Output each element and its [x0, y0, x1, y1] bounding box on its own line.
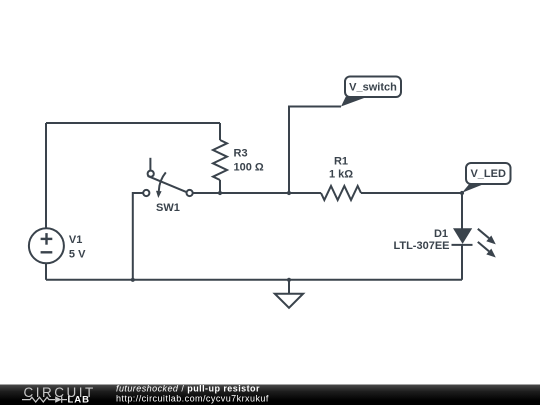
- svg-text:D1: D1: [434, 228, 448, 240]
- svg-text:V1: V1: [69, 234, 82, 246]
- svg-text:V_switch: V_switch: [349, 82, 397, 94]
- svg-text:1 kΩ: 1 kΩ: [329, 169, 353, 181]
- svg-text:futureshocked / pull-up resist: futureshocked / pull-up resistor: [116, 384, 260, 394]
- svg-text:V_LED: V_LED: [470, 168, 506, 180]
- svg-text:R1: R1: [334, 156, 348, 168]
- svg-text:http://circuitlab.com/cycvu7kr: http://circuitlab.com/cycvu7krxukuf: [116, 394, 269, 404]
- svg-text:LTL-307EE: LTL-307EE: [393, 240, 449, 252]
- svg-text:LAB: LAB: [68, 394, 91, 405]
- svg-text:5 V: 5 V: [69, 249, 86, 261]
- svg-text:R3: R3: [234, 148, 248, 160]
- svg-text:SW1: SW1: [156, 202, 180, 214]
- svg-text:100 Ω: 100 Ω: [234, 162, 264, 174]
